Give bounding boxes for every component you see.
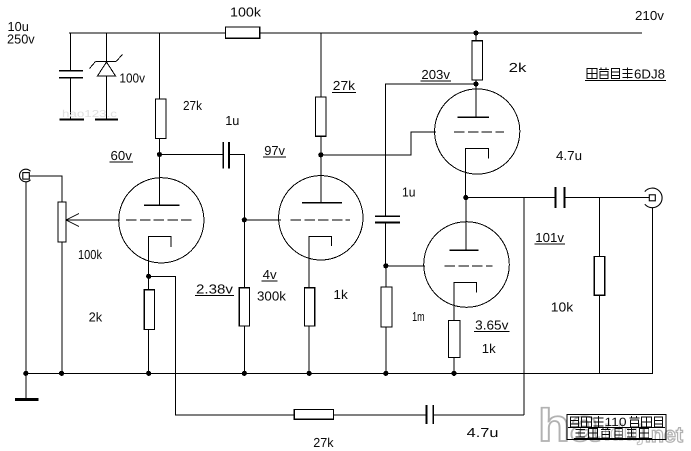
wire 27k to 97v node bbox=[320, 136, 322, 155]
wire tube2 grid node down to 300k bbox=[243, 220, 245, 288]
tube V3 grid dashed line bbox=[454, 131, 504, 133]
wire 203v node to 1u cap branch bbox=[386, 84, 476, 216]
wire feedback bottom right segment bbox=[433, 414, 524, 416]
wire 1m to rail bbox=[385, 327, 387, 373]
svg-text:203v: 203v bbox=[421, 67, 450, 82]
tube V1 envelope bbox=[119, 178, 204, 263]
svg-text:100k: 100k bbox=[78, 247, 102, 262]
wire 97v node to V3 grid riser bbox=[321, 132, 436, 155]
tube V4 grid dashed line bbox=[445, 265, 493, 267]
label 2.38v bbox=[195, 282, 234, 297]
wire 10k branch bbox=[599, 198, 601, 257]
svg-text:1u: 1u bbox=[402, 184, 416, 199]
label 60v bbox=[110, 148, 134, 163]
tube V2 envelope bbox=[279, 176, 363, 260]
svg-text:.net: .net bbox=[645, 422, 684, 447]
tube V1 plate bar bbox=[144, 204, 179, 206]
wire zener lower lead bbox=[106, 76, 108, 119]
wire 60v node to coupling cap bbox=[160, 154, 224, 156]
wire 1k to rail bbox=[453, 357, 455, 373]
wire rail to 2k resistor bbox=[475, 33, 477, 41]
terminal bar under zener bbox=[95, 118, 118, 120]
svg-text:97v: 97v bbox=[264, 143, 285, 158]
label tubes are all 6DJ8 bbox=[585, 67, 666, 82]
capacitor 10u branch wire from rail bbox=[69, 33, 71, 71]
capacitor 4.7u (output) plates bbox=[554, 187, 556, 208]
tube V4 cathode bbox=[454, 282, 477, 320]
svg-text:2.38v: 2.38v bbox=[196, 282, 234, 297]
svg-text:2k: 2k bbox=[89, 310, 103, 325]
node 203v junction dot bbox=[473, 81, 478, 86]
zener diode 100v symbol bbox=[90, 55, 123, 76]
capacitor 4.7u (feedback) plates bbox=[425, 405, 427, 424]
resistor 27k (second stage plate) bbox=[316, 97, 326, 136]
svg-text:300k: 300k bbox=[257, 288, 286, 303]
svg-text:1u: 1u bbox=[225, 113, 239, 128]
label 27k (underlined) bbox=[332, 78, 356, 93]
tube V4 plate lead bbox=[465, 198, 467, 251]
node SRPP output junction dot bbox=[463, 195, 468, 200]
wire feedback takeoff from cathode node bbox=[149, 276, 295, 415]
svg-text:1k: 1k bbox=[482, 341, 496, 356]
svg-text:100k: 100k bbox=[230, 5, 262, 20]
resistor 1k (V2 cathode) bbox=[305, 288, 315, 326]
node dot pot at rail bbox=[59, 371, 64, 376]
tube V2 plate lead bbox=[320, 155, 322, 203]
watermark ha .net bbox=[538, 399, 684, 451]
output jack bbox=[645, 188, 662, 208]
title box bbox=[567, 415, 666, 440]
wire input jack to pot top bbox=[30, 176, 63, 202]
label 4v bbox=[262, 267, 278, 282]
tube V1 cathode bbox=[149, 237, 171, 277]
resistor 2k (V1 cathode) bbox=[144, 290, 154, 330]
wire 2k to 203v node bbox=[475, 80, 477, 84]
capacitor 10u plates bbox=[59, 70, 83, 72]
tube V3 envelope bbox=[435, 89, 520, 174]
tube V1 plate lead bbox=[159, 155, 161, 206]
wire 2k to ground rail bbox=[148, 329, 150, 373]
wire V4 grid node to tube bbox=[386, 265, 425, 267]
wire top rail right segment bbox=[260, 32, 642, 34]
svg-text:27k: 27k bbox=[333, 78, 356, 93]
potentiometer 100k body bbox=[58, 202, 66, 242]
svg-text:4v: 4v bbox=[263, 267, 278, 282]
wire 300k to rail bbox=[243, 326, 245, 373]
resistor 300k (V2 grid leak) bbox=[239, 288, 249, 326]
wire cap to V4 grid node bbox=[385, 223, 387, 266]
svg-text:1k: 1k bbox=[333, 287, 348, 302]
capacitor 1u (second coupling) plates bbox=[375, 215, 400, 217]
svg-text:100v: 100v bbox=[119, 71, 145, 86]
node dot 300k at rail bbox=[242, 371, 247, 376]
tube V2 grid solid lead bbox=[244, 219, 281, 221]
tube V4 plate bar bbox=[449, 249, 478, 251]
resistor 1k (V4 cathode) bbox=[449, 320, 460, 357]
tube V2 cathode bbox=[309, 237, 331, 288]
wire 10k to rail bbox=[599, 295, 601, 373]
terminal bar under 10u cap bbox=[60, 118, 85, 120]
svg-text:2k: 2k bbox=[509, 60, 527, 75]
node 97v junction dot bbox=[318, 152, 323, 157]
svg-text:250v: 250v bbox=[7, 32, 35, 47]
title line 1 (Sibake 110 preamp) bbox=[568, 415, 665, 429]
wire 27k to 60v node bbox=[159, 139, 161, 155]
tube V3 plate lead bbox=[475, 84, 477, 117]
resistor 10k (output load) bbox=[594, 257, 605, 296]
svg-text:hao123.c: hao123.c bbox=[62, 109, 117, 120]
wire rail down to 27k second stage plate resistor bbox=[320, 33, 322, 97]
node V4 grid junction dot bbox=[383, 263, 388, 268]
svg-text:210v: 210v bbox=[635, 8, 665, 23]
tube V3 cathode bbox=[466, 149, 489, 198]
svg-text:110: 110 bbox=[605, 415, 627, 429]
label 10u 250v (filter cap value) bbox=[7, 19, 35, 47]
wire capacitor 10u lower lead bbox=[69, 78, 71, 119]
node dot top rail at 2k bbox=[473, 30, 478, 35]
svg-text:4.7u: 4.7u bbox=[556, 148, 582, 163]
potentiometer wiper arrow line bbox=[66, 219, 120, 221]
input jack bbox=[19, 169, 30, 182]
wire cap to tube2 grid bend bbox=[229, 155, 244, 220]
resistor 27k (first stage plate) bbox=[156, 99, 166, 139]
svg-text:3.65v: 3.65v bbox=[475, 317, 509, 332]
wire cap to output jack bbox=[564, 197, 649, 199]
wire cathode node down to 2k bbox=[148, 276, 150, 290]
zener diode 100v upper wire bbox=[106, 33, 108, 62]
tube V3 plate bar bbox=[457, 116, 489, 118]
label 101v bbox=[534, 230, 565, 245]
wire top rail left segment bbox=[69, 32, 226, 34]
tube V4 envelope bbox=[424, 222, 510, 308]
wire output node to 4.7u cap bbox=[466, 197, 555, 199]
wire 1k to rail bbox=[308, 326, 310, 373]
ground symbol stem bbox=[25, 373, 27, 398]
tube V2 grid dashed line bbox=[291, 219, 351, 221]
wire feedback riser from output line bbox=[523, 198, 525, 415]
svg-text:27k: 27k bbox=[313, 435, 334, 450]
wire pot bottom to ground rail bbox=[61, 242, 63, 373]
wire output jack ground leg bbox=[651, 208, 653, 373]
ground symbol bar bbox=[15, 398, 38, 401]
label 3.65v bbox=[474, 317, 509, 332]
node tube V1 cathode junction dot bbox=[146, 274, 151, 279]
ground rail bbox=[26, 372, 653, 374]
node dot 1k at rail bbox=[307, 371, 312, 376]
node dot 1m at rail bbox=[383, 371, 388, 376]
svg-text:1m: 1m bbox=[412, 309, 425, 324]
node tube2 grid junction dot bbox=[242, 217, 247, 222]
wire from rail down to 27k first stage plate resistor bbox=[159, 33, 161, 99]
tube V1 grid dashed line bbox=[126, 219, 192, 221]
resistor 1m (V4 grid leak) bbox=[381, 287, 392, 327]
node 60v junction dot bbox=[157, 152, 162, 157]
svg-text:101v: 101v bbox=[535, 230, 564, 245]
svg-text:10k: 10k bbox=[551, 300, 574, 315]
resistor 100k (top rail) bbox=[226, 27, 260, 38]
potentiometer wiper arrowhead bbox=[66, 214, 79, 227]
capacitor 1u (first coupling) plates bbox=[222, 142, 224, 169]
svg-text:27k: 27k bbox=[183, 98, 202, 113]
tube V2 plate bar bbox=[302, 202, 342, 204]
label 203v bbox=[420, 67, 450, 82]
resistor 2k (V3 plate) bbox=[472, 41, 483, 80]
title line 2 (Wada Shigeru circuit) bbox=[576, 428, 649, 438]
svg-text:60v: 60v bbox=[111, 148, 133, 163]
resistor 27k (feedback) bbox=[294, 409, 333, 419]
node dot jack-ground at rail bbox=[23, 371, 28, 376]
wire feedback middle segment bbox=[334, 414, 427, 416]
wire input jack ground leg bbox=[25, 182, 27, 373]
node dot 2k at rail bbox=[146, 371, 151, 376]
svg-text:ha: ha bbox=[538, 399, 599, 451]
wire V4 grid node down to 1m bbox=[385, 266, 387, 287]
node dot 1k at rail bbox=[451, 371, 456, 376]
svg-text:6DJ8: 6DJ8 bbox=[634, 67, 665, 82]
label 97v bbox=[263, 143, 286, 158]
svg-text:4.7u: 4.7u bbox=[467, 425, 499, 440]
